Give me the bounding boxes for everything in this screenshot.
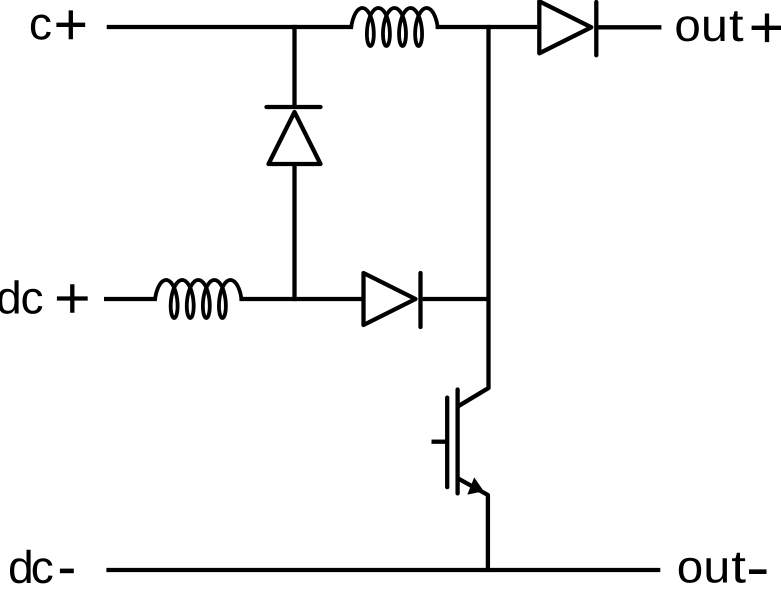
node dc- label minus sign: [60, 569, 74, 574]
diode D1 triangle (top, to out+): [539, 1, 591, 53]
inductor L2 dc+ rail coil: [155, 280, 241, 318]
transistor Q1 emitter lead: [459, 479, 488, 570]
wire bottom rail: [106, 568, 660, 572]
node dc- label "dc": [10, 550, 31, 584]
diode D2 cathode bar: [418, 273, 422, 327]
wire top rail right segment to out+: [598, 25, 661, 29]
diode D1 cathode bar: [594, 2, 598, 55]
wire top rail left segment: [107, 25, 353, 29]
wire vertical bus from top rail down to IGBT collector: [486, 25, 490, 388]
transistor Q1 body bar: [455, 390, 459, 494]
node out+ label plus sign: [752, 14, 781, 43]
node out- label minus sign: [749, 569, 767, 574]
transistor Q1 gate bar: [445, 398, 449, 488]
wire dc+ rail right segment to node: [423, 297, 489, 301]
diode D3 cathode bar: [267, 105, 321, 109]
transistor Q1 gate lead stub: [432, 440, 447, 444]
node out+ label "out": [676, 16, 698, 41]
node out- label "out": [679, 558, 701, 583]
wire dc+ rail left segment: [104, 297, 157, 301]
node dc+ label plus sign: [57, 284, 88, 313]
wire branch from top rail down to diode D3: [292, 25, 296, 105]
transistor Q1 IGBT collector lead: [459, 388, 489, 406]
wire from D3 anode down to dc+ rail: [292, 164, 296, 301]
diode D2 triangle (dc+ rail): [364, 273, 416, 325]
wire dc+ rail mid segment: [239, 297, 361, 301]
node c+ label "c": [31, 15, 51, 40]
node c+ label plus sign: [56, 10, 85, 39]
transistor Q1 emitter arrow: [467, 477, 484, 494]
inductor L1 top rail coil: [351, 8, 437, 46]
wire top rail mid segment: [436, 25, 538, 29]
diode D3 triangle (vertical, pointing up): [269, 112, 321, 164]
node dc+ label "dc": [0, 280, 19, 314]
